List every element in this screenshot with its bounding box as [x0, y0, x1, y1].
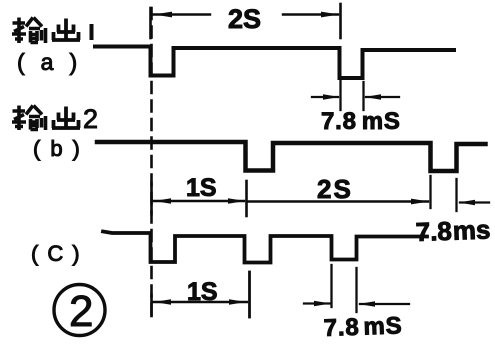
- dimension 7.8mS row a: left arrow: [312, 96, 338, 98]
- dimension 7.8mS row a: right extension: [362, 82, 364, 110]
- dimension 2S top: right tick: [339, 4, 342, 38]
- dimension 7.8mS row c: right extension: [355, 268, 357, 312]
- dimension 2S top: left tick: [149, 8, 152, 38]
- dimension 7.8ms row b: left extension: [429, 176, 431, 208]
- dimension 2S row b: line with arrow: [249, 200, 429, 202]
- dimension 7.8mS row c: left arrow: [304, 302, 330, 304]
- label 输出2: [12, 106, 80, 131]
- dimension row b: middle tick: [245, 181, 248, 216]
- dimension 7.8mS row a: left extension: [339, 80, 341, 110]
- svg-text:2S: 2S: [317, 174, 353, 204]
- dimension 7.8mS row c: right arrow: [360, 303, 409, 305]
- svg-text:(a): (a): [17, 49, 93, 75]
- dimension 7.8mS row a: right arrow: [366, 96, 399, 98]
- dimension 2S top: left arrow: [153, 13, 210, 15]
- svg-text:7.8mS: 7.8mS: [321, 108, 401, 135]
- svg-text:7.8mS: 7.8mS: [323, 312, 403, 342]
- waveform b (output 2): [97, 142, 486, 171]
- svg-text:1S: 1S: [186, 174, 217, 202]
- dimension 7.8ms row b: right arrow: [460, 201, 489, 203]
- dimension 7.8ms row b: right extension: [455, 179, 457, 211]
- dashed reference line at 1S origin: [150, 8, 153, 316]
- dimension 7.8mS row c: left extension: [330, 265, 332, 307]
- dimension 1S row c: left tick: [150, 295, 153, 316]
- dimension 1S row c: right tick: [248, 272, 251, 317]
- svg-text:2S: 2S: [228, 4, 261, 34]
- dimension 1S row c: line with arrows: [153, 301, 247, 303]
- svg-text:2: 2: [69, 287, 93, 336]
- figure number circle 2: [54, 285, 105, 336]
- waveform c: [103, 232, 427, 263]
- label 输出1: [12, 18, 92, 44]
- svg-text:2: 2: [83, 104, 98, 134]
- dimension 1S row b: left tick: [150, 183, 153, 214]
- svg-text:1S: 1S: [187, 278, 218, 306]
- svg-text:7.8ms: 7.8ms: [415, 214, 491, 247]
- svg-text:(C): (C): [31, 241, 89, 266]
- waveform a (output 1): [95, 47, 454, 79]
- svg-text:(b): (b): [33, 136, 90, 161]
- dimension 2S top: right arrow: [283, 13, 338, 15]
- dimension 1S row b: line with arrows: [153, 200, 244, 202]
